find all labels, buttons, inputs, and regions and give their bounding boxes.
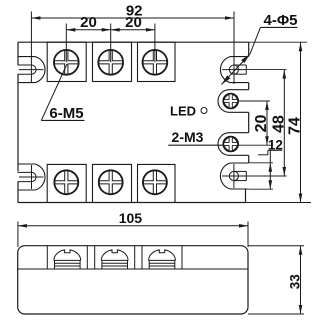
- svg-text:105: 105: [119, 210, 143, 226]
- svg-text:4-Φ5: 4-Φ5: [264, 12, 298, 29]
- svg-text:33: 33: [287, 274, 302, 290]
- svg-text:20: 20: [125, 14, 142, 31]
- svg-text:LED: LED: [170, 104, 196, 119]
- svg-text:20: 20: [253, 115, 270, 133]
- svg-text:20: 20: [80, 14, 97, 31]
- svg-text:74: 74: [287, 117, 304, 135]
- svg-text:6-M5: 6-M5: [49, 105, 83, 122]
- svg-text:48: 48: [270, 115, 287, 133]
- svg-text:2-M3: 2-M3: [172, 129, 204, 145]
